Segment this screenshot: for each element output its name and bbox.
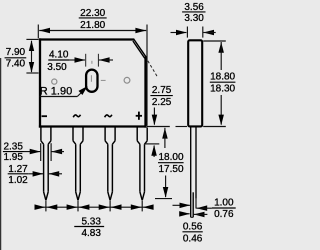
- plus marking: [136, 112, 142, 120]
- svg-text:4.10: 4.10: [49, 50, 69, 61]
- dimension 18.80/18.30 body height: [203, 41, 235, 127]
- dimension 2.75/2.25 standoff: [148, 61, 173, 157]
- svg-text:0.46: 0.46: [183, 233, 203, 244]
- hole centerline marks: [91, 61, 105, 82]
- front view body outline: [39, 38, 147, 127]
- stub end extension line: [145, 143, 159, 145]
- svg-text:1.02: 1.02: [8, 175, 28, 186]
- svg-text:2.25: 2.25: [152, 97, 172, 108]
- ac tilde marking 1: [73, 115, 80, 118]
- svg-text:0.76: 0.76: [214, 209, 234, 220]
- chamfer top-right edge (double line): [133, 39, 146, 58]
- svg-text:3.50: 3.50: [47, 62, 67, 73]
- dimension 3.56/3.30 body thickness: [171, 2, 216, 38]
- dimension 0.56/0.46 pin tip thickness: [179, 211, 207, 244]
- pin 2 (front view): [73, 128, 83, 201]
- pin (side view): [191, 128, 196, 218]
- side view body outline: [188, 40, 202, 126]
- svg-text:1.95: 1.95: [3, 152, 23, 163]
- svg-text:2.75: 2.75: [152, 85, 172, 96]
- pin 4 (front view): [137, 128, 147, 201]
- svg-text:21.80: 21.80: [80, 20, 105, 31]
- minus marking: [42, 115, 47, 117]
- svg-text:18.00: 18.00: [158, 152, 183, 163]
- svg-text:1.27: 1.27: [8, 164, 28, 175]
- svg-text:1.00: 1.00: [214, 197, 234, 208]
- dimension 1.00/0.76 pin thickness: [173, 197, 236, 220]
- extension line side pin wide edge: [195, 199, 197, 209]
- seating plane extension line: [147, 126, 187, 128]
- svg-text:7.90: 7.90: [6, 47, 26, 58]
- extension lines pin 1 wide section: [41, 143, 51, 161]
- svg-text:18.80: 18.80: [210, 72, 235, 83]
- dimension 5.33/4.83 pin pitch: [35, 201, 154, 239]
- mold mark circle right: [124, 77, 130, 83]
- svg-text:0.56: 0.56: [183, 221, 203, 232]
- svg-text:7.40: 7.40: [6, 58, 26, 69]
- svg-text:17.50: 17.50: [158, 164, 183, 175]
- svg-text:3.30: 3.30: [184, 13, 204, 24]
- svg-text:2.35: 2.35: [3, 142, 23, 153]
- mounting hole (obround): [86, 70, 97, 92]
- mold mark circle left: [52, 79, 57, 84]
- radius callout R 1.90: [40, 85, 88, 97]
- svg-text:18.30: 18.30: [210, 83, 235, 94]
- ac tilde marking 2: [105, 115, 112, 118]
- page border line left: [0, 58, 2, 250]
- svg-text:4.83: 4.83: [81, 228, 101, 239]
- dimension 4.10/3.50 hole width: [47, 50, 113, 73]
- dimension 18.00/17.50 pin length: [155, 128, 184, 199]
- pin 3 (front view): [105, 128, 115, 201]
- svg-text:R 1.90: R 1.90: [40, 85, 72, 97]
- dimension 22.30/21.80 overall width: [38, 8, 147, 126]
- dimension 2.35/1.95 pin wide width: [3, 142, 64, 163]
- dimension 1.27/1.02 pin narrow width: [8, 164, 62, 186]
- pin 1 (front view): [41, 128, 51, 201]
- dimension 7.90/7.40 hole position: [5, 39, 39, 73]
